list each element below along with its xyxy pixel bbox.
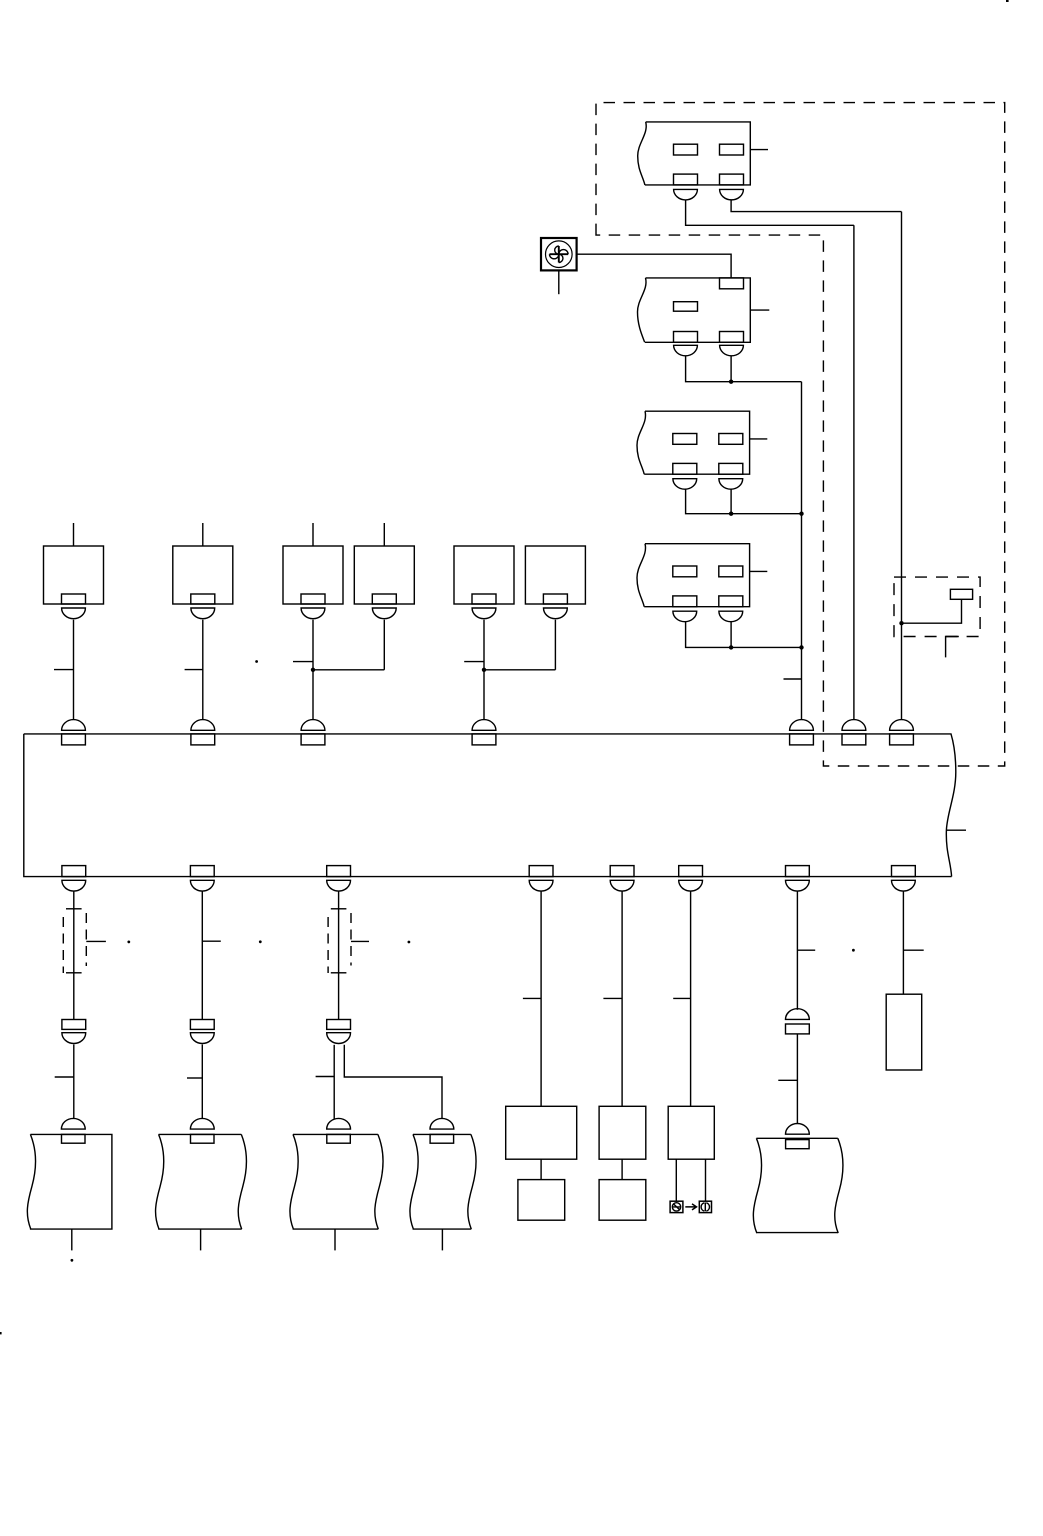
- module A4: [506, 1106, 577, 1159]
- wire W8: [902, 891, 904, 994]
- connector U1 top pin2: [191, 720, 215, 745]
- inline connector W3: [327, 1020, 351, 1044]
- wire R4 pin1 to node A: [686, 622, 802, 648]
- wire S3 to S4: [313, 669, 384, 671]
- junction node C1: [899, 621, 903, 625]
- connector U1 top pin4: [472, 720, 496, 745]
- ECU box E2: [156, 1134, 247, 1229]
- wire S5 to S6: [484, 669, 555, 671]
- module B5: [599, 1180, 646, 1221]
- wire W4: [540, 891, 542, 1106]
- connector E1: [61, 1118, 85, 1143]
- junction R3: [729, 512, 733, 516]
- tick W4: [523, 997, 541, 999]
- resistor R5: [886, 994, 922, 1070]
- tick S2: [185, 669, 203, 671]
- relay R3: [637, 411, 767, 489]
- wire E2 bottom: [200, 1229, 202, 1250]
- small dashed box (right): [894, 577, 980, 636]
- arrow T1 to T2: [685, 1204, 696, 1210]
- wire E4 bottom: [441, 1229, 443, 1250]
- wire node C vertical: [901, 212, 903, 720]
- junction R2: [729, 380, 733, 384]
- page mark top: [1006, 0, 1009, 2]
- wire W3 lower left: [333, 1045, 335, 1120]
- tick S3: [293, 661, 313, 663]
- connector U1 top pin7: [890, 720, 914, 745]
- wire W1 lower: [73, 1045, 75, 1119]
- wire S6 down: [554, 620, 556, 670]
- wire node B vertical: [853, 225, 855, 719]
- tick W1 c: [55, 1076, 74, 1078]
- wire W3 lower right to M4: [344, 1045, 442, 1119]
- junction dot W2 label: [259, 940, 262, 943]
- tick W7 a: [797, 949, 815, 951]
- tick W3 a: [331, 908, 347, 910]
- wire node A vertical: [801, 382, 803, 720]
- connector U1 bottom pin8: [892, 866, 916, 892]
- branch W3: [351, 940, 369, 942]
- wire fan down stub: [558, 270, 560, 294]
- connector E3: [327, 1118, 351, 1143]
- tick W8: [903, 949, 923, 951]
- module B4: [518, 1180, 565, 1221]
- wire S4 top stub: [383, 523, 385, 546]
- switch S2: [173, 546, 233, 619]
- tick S5: [464, 661, 484, 663]
- wire S5 down: [483, 620, 485, 720]
- wire R2 pin2: [730, 356, 732, 382]
- wire R4 pin2: [730, 622, 732, 648]
- dot label a: [127, 941, 130, 944]
- junction node A2: [799, 645, 803, 649]
- page mark left: [0, 1332, 2, 1334]
- dot label d: [255, 660, 258, 663]
- ECU box E1: [27, 1134, 112, 1229]
- shield dashes W1: [63, 913, 86, 973]
- wire A4 to B4: [540, 1159, 542, 1179]
- wire fan to relay R2: [577, 254, 731, 278]
- wire S2 down: [202, 620, 204, 720]
- junction S5: [482, 668, 486, 672]
- connector E2: [190, 1118, 214, 1143]
- wire R1 pin1 to node B: [686, 200, 854, 225]
- wire S1 top stub: [73, 523, 75, 546]
- wire S3 down: [312, 620, 314, 720]
- connector U1 bottom pin4: [529, 866, 553, 892]
- wire R3 pin2: [730, 489, 732, 514]
- dot label e: [71, 1259, 74, 1262]
- ECU box E3: [290, 1134, 383, 1229]
- wire E1 bottom: [71, 1229, 73, 1250]
- relay R2: [638, 278, 770, 356]
- branch W1: [86, 940, 106, 942]
- shield dashes W3: [328, 913, 351, 973]
- resistor block in small dashed box: [950, 589, 972, 599]
- ECU box E5: [753, 1138, 843, 1233]
- terminal icon T1: [670, 1201, 683, 1212]
- wire R1 pin2 to node C: [731, 200, 901, 212]
- wire R2 pin1 to node A: [686, 356, 802, 382]
- connector U1 bottom pin2: [190, 866, 214, 892]
- wire S3 top stub: [312, 523, 314, 546]
- junction R4: [729, 645, 733, 649]
- connector U1 bottom pin5: [610, 866, 634, 892]
- connector U1 top pin3: [301, 720, 325, 745]
- corner mark below dashed box: [946, 637, 959, 658]
- junction block U1 outline: [24, 734, 956, 877]
- switch S5: [454, 546, 514, 619]
- wire W6: [690, 891, 692, 1106]
- connector E5: [786, 1124, 810, 1149]
- switch S3: [283, 546, 343, 619]
- wire W1 upper: [73, 891, 75, 1019]
- wire A5 to B5: [621, 1159, 623, 1179]
- tick node A: [784, 678, 802, 680]
- terminal icon T2: [699, 1201, 711, 1212]
- wire W2 lower: [201, 1045, 203, 1119]
- wire W7 upper: [796, 891, 798, 1010]
- tick W6: [673, 997, 690, 999]
- inline connector W2: [190, 1020, 214, 1044]
- wire A6 pin1: [675, 1159, 677, 1201]
- wire R3 pin1 to node A: [686, 489, 802, 514]
- connector U1 bottom pin1: [62, 866, 86, 892]
- wire S2 top stub: [202, 523, 204, 546]
- switch S1: [44, 546, 104, 619]
- connector U1 top pin6: [842, 720, 866, 745]
- dot label c: [852, 949, 855, 952]
- ECU box E4: [410, 1134, 476, 1229]
- tick W1 a: [66, 908, 82, 910]
- tick W2 b: [187, 1077, 202, 1079]
- fan motor M1: [541, 238, 577, 270]
- wire W3 upper: [338, 891, 340, 1019]
- junction S3: [311, 668, 315, 672]
- connector E4: [430, 1118, 454, 1143]
- tick W5: [603, 997, 622, 999]
- inline connector W1: [62, 1020, 86, 1044]
- wire W7 lower: [796, 1034, 798, 1124]
- junction node A1: [799, 512, 803, 516]
- tick W2 a: [202, 940, 221, 942]
- switch S4: [354, 546, 414, 619]
- tick W7 b: [778, 1079, 797, 1081]
- relay R1: [638, 122, 768, 200]
- inline connector W7 (inverted): [786, 1009, 810, 1034]
- connector U1 bottom pin7: [786, 866, 810, 892]
- connector U1 top pin5: [790, 720, 814, 745]
- module A5: [599, 1106, 646, 1159]
- connector U1 bottom pin6: [679, 866, 703, 892]
- tick W1 b: [66, 972, 82, 974]
- wire W5: [621, 891, 623, 1106]
- tick W3 b: [331, 972, 347, 974]
- wire E3 bottom: [334, 1229, 336, 1250]
- tick U1 right: [947, 829, 967, 831]
- tick W3 c: [316, 1076, 335, 1078]
- relay R4: [637, 544, 767, 622]
- module A6: [668, 1106, 714, 1159]
- connector U1 top pin1: [62, 720, 86, 745]
- wire S4 down: [383, 620, 385, 670]
- wire W2 upper: [201, 891, 203, 1019]
- wire S1 down: [73, 620, 75, 720]
- dashed enclosure top-right L-shape: [596, 103, 1005, 766]
- tick S1: [54, 669, 74, 671]
- wire resistor to node C: [902, 599, 962, 623]
- dot label b: [408, 941, 411, 944]
- switch S6: [525, 546, 585, 619]
- wire A6 pin2: [705, 1159, 707, 1201]
- connector U1 bottom pin3: [327, 866, 351, 892]
